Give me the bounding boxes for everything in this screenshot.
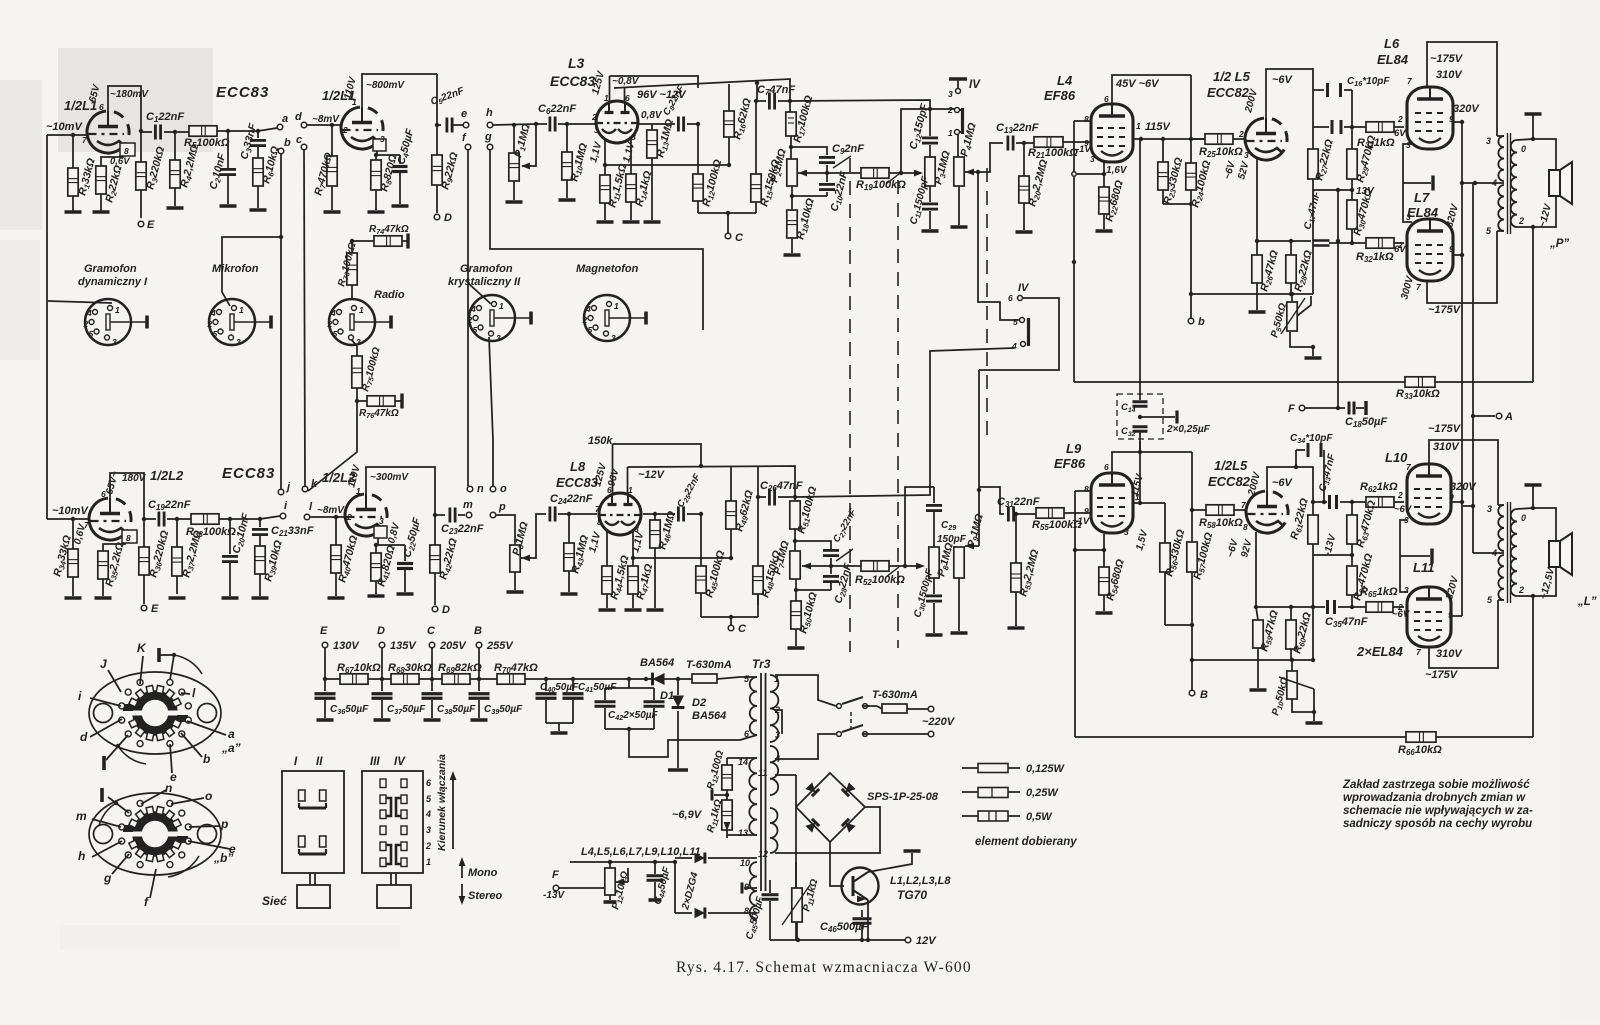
socket view a ground tab bbox=[160, 654, 174, 656]
panel III/IV contacts bbox=[380, 779, 386, 788]
svg-text:4: 4 bbox=[425, 809, 431, 819]
svg-text:wprowadzania drobnych zmian w: wprowadzania drobnych zmian w bbox=[1343, 792, 1526, 804]
resistor R9 22kΩ bbox=[436, 125, 438, 155]
tube L5a ECC82 bbox=[1245, 118, 1276, 160]
wire d to V2 grid bbox=[307, 124, 341, 126]
legend 0,125W bbox=[962, 767, 978, 769]
svg-text:dynamiczny I: dynamiczny I bbox=[78, 276, 148, 288]
feedback wire y=558 bbox=[633, 557, 731, 559]
wire Tr3 pin1 to switch bbox=[775, 675, 836, 706]
pot P3 1MΩ bbox=[925, 157, 935, 186]
svg-text:2: 2 bbox=[947, 105, 953, 115]
svg-text:C16*10pF: C16*10pF bbox=[1347, 76, 1390, 88]
resistor R21 100kΩ bbox=[1033, 141, 1035, 143]
resistor R56 330kΩ bbox=[1164, 503, 1166, 543]
wire V2 cathode bbox=[376, 142, 378, 155]
ground under C2 bbox=[220, 204, 237, 208]
wire P9 bottom bbox=[958, 578, 960, 631]
ground above secondary bbox=[1532, 115, 1534, 139]
wire contact1 to P4 bbox=[957, 134, 959, 157]
fuse T-630mA mains bbox=[877, 706, 882, 709]
wire L8 plates up bbox=[612, 444, 614, 493]
svg-text:0,125W: 0,125W bbox=[1026, 763, 1066, 775]
tube L5b ECC82 bbox=[1246, 491, 1277, 533]
capacitor C34 10pF bbox=[1296, 449, 1305, 451]
svg-text:~6,9V: ~6,9V bbox=[672, 809, 703, 821]
svg-text:C34*10pF: C34*10pF bbox=[1290, 433, 1333, 445]
capacitor C2 10nF bbox=[227, 131, 229, 168]
svg-text:L6: L6 bbox=[1384, 36, 1400, 51]
svg-text:9: 9 bbox=[1084, 506, 1089, 516]
svg-text:b: b bbox=[284, 137, 291, 149]
center tap C14/C32 bbox=[1138, 415, 1142, 419]
svg-text:C92nF: C92nF bbox=[832, 143, 864, 156]
signal line y=566 bbox=[814, 565, 861, 567]
resistor R60 22kΩ bbox=[1290, 607, 1292, 620]
capacitor C9 2nF bbox=[819, 156, 835, 159]
plate wire L4 bbox=[1133, 138, 1205, 140]
wire down to b node bbox=[1190, 204, 1192, 294]
capacitor C14 bbox=[1139, 394, 1141, 400]
terminal 12V bbox=[905, 937, 911, 943]
node after R38 bbox=[228, 517, 232, 521]
svg-text:3: 3 bbox=[1244, 150, 1249, 160]
pot P9 1MΩ bbox=[954, 547, 964, 578]
wire bridge to winding 11 bbox=[775, 774, 796, 776]
Tr3 winding 14-13 bbox=[749, 758, 757, 835]
svg-text:5: 5 bbox=[89, 329, 94, 339]
wire g down and right to Magnetofon bbox=[490, 150, 703, 330]
svg-text:element dobierany: element dobierany bbox=[975, 836, 1077, 848]
svg-text:R321kΩ: R321kΩ bbox=[1356, 251, 1394, 264]
terminal C bbox=[725, 233, 731, 239]
svg-text:2: 2 bbox=[342, 125, 348, 135]
svg-text:8: 8 bbox=[124, 146, 129, 156]
svg-text:C: C bbox=[427, 625, 436, 637]
svg-text:C: C bbox=[735, 232, 744, 244]
svg-text:schemacie nie wpływających w z: schemacie nie wpływających w za- bbox=[1343, 805, 1533, 817]
capacitor C22 50µF bbox=[376, 544, 405, 546]
svg-text:~175V: ~175V bbox=[1430, 53, 1464, 65]
svg-text:E: E bbox=[147, 219, 155, 231]
terminal g bbox=[487, 144, 493, 150]
ground under R44 bbox=[599, 608, 616, 612]
wire secondary to speaker P bbox=[1533, 139, 1556, 170]
svg-text:m: m bbox=[463, 499, 473, 511]
svg-text:D: D bbox=[442, 604, 450, 616]
wire L10 screen bbox=[1451, 501, 1462, 503]
svg-text:C3850µF: C3850µF bbox=[437, 704, 476, 716]
Siec box 2 bbox=[377, 885, 411, 908]
svg-text:3: 3 bbox=[1090, 154, 1095, 164]
capacitor C11 1500pF bbox=[929, 186, 931, 202]
svg-text:n: n bbox=[165, 781, 172, 795]
svg-text:p: p bbox=[220, 817, 228, 831]
transformer Tr2 primary bbox=[1498, 504, 1504, 506]
wire Tr3 pin2 jog bbox=[775, 710, 782, 734]
ground above Tr2 secondary bbox=[1532, 486, 1534, 508]
resistor R49 62kΩ bbox=[730, 467, 732, 501]
signal line y=173 bbox=[810, 172, 861, 174]
svg-text:3: 3 bbox=[594, 125, 599, 135]
resistor R2 22kΩ bbox=[100, 164, 102, 166]
pot P6 1MΩ bbox=[510, 545, 520, 572]
terminal b (supply) bbox=[1188, 318, 1194, 324]
svg-text:L1,L2,L3,L8: L1,L2,L3,L8 bbox=[890, 875, 951, 887]
node C9/C10 bbox=[826, 165, 828, 182]
ground under P9 bbox=[951, 631, 968, 635]
capacitor C32 bbox=[1133, 425, 1148, 428]
wire socket1 to input line bbox=[48, 301, 112, 303]
wire C28 to P7 bottom bbox=[796, 579, 831, 590]
transformer Tr1 core bbox=[1507, 133, 1509, 234]
panel I/II contacts bbox=[299, 790, 306, 801]
svg-text:3: 3 bbox=[112, 337, 117, 347]
socket view b bbox=[89, 793, 221, 875]
capacitor C41 50µF bbox=[572, 679, 574, 691]
bias node -13V bbox=[1313, 554, 1352, 556]
svg-text:BA564: BA564 bbox=[692, 710, 726, 722]
wire b stem bbox=[1190, 294, 1192, 318]
riser to C12 bbox=[901, 109, 930, 173]
svg-text:1: 1 bbox=[628, 485, 633, 495]
ground under R4 bbox=[167, 206, 184, 210]
svg-text:E: E bbox=[320, 625, 328, 637]
resistor R44 1,5kΩ bbox=[606, 565, 608, 567]
tube L11 EL84 bbox=[1407, 587, 1451, 647]
svg-text:1: 1 bbox=[499, 301, 504, 311]
svg-text:R38100kΩ: R38100kΩ bbox=[186, 526, 236, 539]
svg-text:BA564: BA564 bbox=[640, 657, 674, 669]
resistor R47 1kΩ bbox=[632, 565, 634, 567]
svg-text:C1922nF: C1922nF bbox=[148, 499, 191, 512]
terminal k bbox=[302, 486, 308, 492]
svg-text:d: d bbox=[80, 730, 88, 744]
resistor R11h 1kΩ bbox=[726, 795, 728, 800]
svg-text:6: 6 bbox=[99, 102, 104, 112]
svg-text:0,5W: 0,5W bbox=[1026, 811, 1053, 823]
bias rail to F bbox=[1337, 190, 1339, 408]
wire f down to n bbox=[467, 150, 469, 486]
resistor R61 22kΩ bbox=[1308, 515, 1318, 544]
wire R56 to junction bbox=[1165, 624, 1192, 626]
svg-text:b: b bbox=[1198, 316, 1205, 328]
svg-text:ECC83: ECC83 bbox=[550, 73, 595, 89]
terminal d bbox=[301, 122, 307, 128]
node C3/R6 bbox=[256, 129, 260, 133]
svg-text:R6610kΩ: R6610kΩ bbox=[1398, 744, 1442, 757]
svg-text:D: D bbox=[444, 212, 452, 224]
bridge diode 2 bbox=[842, 782, 856, 796]
resistor R25 10kΩ bbox=[1191, 138, 1205, 140]
Tr3 winding 11-12 bbox=[770, 808, 778, 853]
svg-text:o: o bbox=[205, 789, 212, 803]
svg-text:L10: L10 bbox=[1385, 450, 1408, 465]
screen tap to B+ line bbox=[1462, 505, 1473, 507]
rail 125V top bbox=[610, 76, 699, 88]
svg-text:310V: 310V bbox=[1436, 69, 1463, 81]
socket view b leader lines bbox=[141, 790, 166, 804]
switch IV contacts 5-4 bbox=[1020, 318, 1025, 323]
ground under R40 bbox=[328, 596, 345, 600]
speaker P bbox=[1549, 170, 1560, 196]
capacitor C4 50µF bbox=[399, 155, 401, 164]
wire R23/R24 junction bbox=[1163, 203, 1191, 205]
socket Gramofon dynamiczny I bbox=[85, 299, 131, 345]
capacitor C19 22nF bbox=[157, 512, 160, 527]
svg-text:C2422nF: C2422nF bbox=[550, 493, 593, 506]
capacitor C25 22nF bbox=[655, 513, 675, 515]
svg-text:2: 2 bbox=[327, 319, 333, 329]
speaker L bbox=[1549, 541, 1560, 567]
signal line ch2 to L10 bbox=[1313, 501, 1327, 503]
svg-text:0,25W: 0,25W bbox=[1026, 787, 1059, 799]
wire R75 junction down to k bbox=[308, 401, 357, 491]
mains switch pole 2 bbox=[837, 732, 842, 737]
socket view a bbox=[89, 672, 221, 754]
svg-text:C: C bbox=[738, 623, 747, 635]
svg-text:D2: D2 bbox=[692, 697, 706, 709]
svg-text:e: e bbox=[461, 108, 467, 120]
svg-text:1: 1 bbox=[115, 305, 120, 315]
resistor R42 22kΩ bbox=[434, 515, 436, 545]
capacitor C26 47nF bbox=[757, 466, 759, 497]
resistor R22 680Ω bbox=[1103, 186, 1105, 188]
svg-text:a: a bbox=[282, 113, 288, 125]
tube V4 1/2L2 bbox=[345, 494, 376, 536]
svg-text:~175V: ~175V bbox=[1428, 423, 1462, 435]
wire C5 to e bbox=[453, 124, 463, 126]
capacitor C20 10nF bbox=[229, 519, 231, 554]
ground under R34 bbox=[65, 596, 82, 600]
transformer Tr3 core bbox=[760, 673, 762, 891]
wire L6 plate to transformer bbox=[1427, 42, 1497, 136]
terminator bar R74 bbox=[406, 234, 409, 249]
svg-text:„a”: „a” bbox=[221, 741, 241, 755]
svg-text:3: 3 bbox=[1406, 212, 1411, 222]
wire p to P6 bbox=[496, 515, 515, 545]
svg-text:C3122nF: C3122nF bbox=[997, 496, 1040, 509]
svg-text:sadniczy sposób na cechy wyrob: sadniczy sposób na cechy wyrobu bbox=[1343, 818, 1532, 830]
resistor R69 82kΩ bbox=[432, 678, 442, 680]
resistor R40 470kΩ bbox=[335, 517, 337, 545]
capacitor C8 22nF bbox=[652, 123, 675, 125]
wire L8 cathode right bbox=[632, 531, 634, 566]
resistor R68 30kΩ bbox=[382, 678, 391, 680]
resistor R4 2,2MΩ bbox=[174, 132, 176, 160]
resistor R16 62kΩ bbox=[728, 84, 730, 111]
svg-text:320V: 320V bbox=[1453, 103, 1480, 115]
capacitor C36 50µF bbox=[324, 679, 326, 691]
svg-text:R621kΩ: R621kΩ bbox=[1360, 481, 1398, 494]
terminal i bbox=[280, 513, 286, 519]
plate wire L9 bbox=[1133, 502, 1165, 504]
resistor R43 1MΩ bbox=[568, 514, 570, 543]
svg-text:Mikrofon: Mikrofon bbox=[212, 263, 259, 275]
svg-text:0: 0 bbox=[1521, 144, 1526, 154]
terminal E below R3 bbox=[138, 221, 144, 227]
svg-text:R5100kΩ: R5100kΩ bbox=[184, 137, 230, 150]
svg-text:320V: 320V bbox=[1450, 481, 1477, 493]
svg-text:2: 2 bbox=[591, 112, 597, 122]
svg-text:2: 2 bbox=[582, 315, 588, 325]
ground under R37 bbox=[169, 596, 186, 600]
feedback resistor R33 10kΩ bbox=[1074, 381, 1405, 383]
svg-text:L8: L8 bbox=[570, 459, 586, 474]
svg-text:k: k bbox=[311, 478, 318, 490]
shared ground C40/C41 bbox=[546, 722, 573, 724]
terminal e bbox=[463, 122, 469, 128]
svg-text:Zakład zastrzega sobie możliwo: Zakład zastrzega sobie możliwość bbox=[1342, 779, 1530, 791]
pot P1 1MΩ bbox=[513, 125, 515, 153]
socket Magnetofon bbox=[584, 295, 630, 341]
svg-text:ECC82: ECC82 bbox=[1207, 85, 1250, 100]
ground under R6 bbox=[250, 208, 267, 212]
capacitor C29 150pF bbox=[933, 487, 935, 503]
terminal c bbox=[301, 144, 307, 150]
resistor R5 100kΩ bbox=[188, 130, 190, 132]
svg-text:R5810kΩ: R5810kΩ bbox=[1199, 517, 1243, 530]
svg-text:C3950µF: C3950µF bbox=[484, 704, 523, 716]
resistor R13 1MΩ bbox=[637, 123, 652, 125]
capacitor C12 150pF bbox=[929, 109, 931, 136]
capacitor C46 bbox=[853, 917, 872, 920]
wire bridge left down bbox=[795, 807, 797, 940]
label Mono bbox=[461, 862, 463, 878]
svg-text:3: 3 bbox=[236, 337, 241, 347]
terminal n bbox=[467, 486, 473, 492]
svg-text:8: 8 bbox=[597, 517, 602, 527]
svg-text:g: g bbox=[103, 871, 112, 885]
svg-text:K: K bbox=[137, 641, 147, 655]
terminal B stem bbox=[1191, 660, 1193, 690]
node C21 bbox=[258, 517, 262, 521]
wire plate node down to C5 bbox=[437, 74, 441, 125]
resistor R30 470kΩ bbox=[1347, 200, 1357, 229]
capacitor C31 22nF bbox=[1007, 507, 1010, 522]
capacitor C45 500µF bbox=[769, 880, 771, 893]
svg-text:1: 1 bbox=[614, 301, 619, 311]
wire L9 pin8 to feedback bbox=[1075, 490, 1091, 492]
ground under C22 bbox=[397, 592, 414, 596]
bridge diode 1 bbox=[805, 782, 819, 796]
rail to node C ch2 bbox=[700, 605, 702, 617]
svg-text:3: 3 bbox=[426, 825, 431, 835]
Tr3 winding 10-9-8 bbox=[750, 862, 757, 920]
ground under C11 bbox=[922, 229, 939, 233]
pot P11 1kΩ bbox=[795, 862, 797, 888]
ground under R39 bbox=[252, 596, 269, 600]
ganged dashes P3-P8 bbox=[897, 180, 899, 648]
svg-text:11: 11 bbox=[758, 768, 767, 778]
svg-text:T-630mA: T-630mA bbox=[872, 689, 918, 701]
branch to C9 bbox=[791, 147, 827, 155]
svg-text:3: 3 bbox=[1406, 140, 1411, 150]
svg-text:n: n bbox=[477, 483, 484, 495]
svg-text:~10mV: ~10mV bbox=[46, 121, 83, 133]
svg-text:III: III bbox=[370, 756, 380, 768]
svg-text:205V: 205V bbox=[439, 640, 467, 652]
ground under C30 bbox=[926, 633, 943, 637]
rail ~12V bbox=[628, 466, 796, 501]
wire L3 plates up bbox=[609, 76, 611, 101]
wire bridge bottom to base bbox=[830, 842, 844, 886]
resistor R24 100kΩ bbox=[1190, 162, 1192, 164]
terminal f bbox=[465, 144, 471, 150]
wire socket4 pin3 to o bbox=[489, 337, 493, 486]
transformer Tr1 primary bbox=[1497, 135, 1504, 137]
resistor R36 220kΩ bbox=[143, 519, 145, 547]
svg-text:2: 2 bbox=[1397, 490, 1403, 500]
terminal h bbox=[487, 122, 493, 128]
terminal ~220V a bbox=[928, 706, 934, 712]
svg-text:R2510kΩ: R2510kΩ bbox=[1199, 146, 1243, 159]
resistor R63 470kΩ bbox=[1351, 502, 1353, 515]
svg-text:2: 2 bbox=[1518, 585, 1524, 595]
pot P7 1MΩ bbox=[790, 551, 800, 579]
svg-text:9: 9 bbox=[744, 882, 749, 892]
resistor R75 100kΩ bbox=[350, 338, 357, 346]
svg-text:1: 1 bbox=[426, 857, 431, 867]
legend 0,5W bbox=[962, 815, 978, 817]
capacitor C5 22nF bbox=[445, 118, 448, 133]
terminal a bbox=[277, 124, 283, 130]
diode D1 BA564 bbox=[653, 673, 665, 686]
ground under R7 bbox=[324, 210, 341, 214]
wire c to k bbox=[304, 150, 305, 486]
supply line y=660 bbox=[1192, 659, 1313, 661]
ground under P4 bbox=[951, 225, 968, 229]
svg-text:C622nF: C622nF bbox=[538, 103, 576, 116]
resistor R37 2,2MΩ bbox=[176, 519, 178, 547]
wiper P9 bbox=[965, 543, 974, 550]
feedback ch2 from secondary bbox=[1532, 596, 1534, 612]
svg-text:4: 4 bbox=[330, 308, 336, 318]
socket Gramofon krystaliczny II bbox=[469, 295, 515, 341]
svg-text:C2647nF: C2647nF bbox=[760, 480, 803, 493]
svg-text:4: 4 bbox=[585, 304, 591, 314]
resistor R14 1kΩ bbox=[630, 173, 632, 175]
terminal B bbox=[1189, 690, 1195, 696]
terminal j bbox=[278, 489, 284, 495]
wire L9 cathode bbox=[1103, 534, 1105, 567]
Tr3 winding 5-6 bbox=[750, 677, 757, 735]
svg-text:1: 1 bbox=[359, 305, 364, 315]
wire Tr3 pin4 to switch bbox=[775, 734, 836, 759]
wire b to j and Mikrofon bbox=[280, 154, 282, 489]
tube L3 ECC83 bbox=[596, 101, 638, 143]
svg-text:D1: D1 bbox=[660, 690, 674, 702]
svg-text:EF86: EF86 bbox=[1044, 88, 1076, 103]
screen rail 320V bbox=[1453, 121, 1462, 123]
resistor R57 100kΩ bbox=[1191, 452, 1193, 542]
wire L11 plate down bbox=[1429, 600, 1498, 668]
wire L10 plate to transformer bbox=[1429, 440, 1498, 505]
svg-text:12: 12 bbox=[758, 849, 768, 859]
svg-text:C2133nF: C2133nF bbox=[271, 525, 314, 538]
wire wiper to IV switch lower bbox=[978, 172, 1019, 320]
svg-text:3: 3 bbox=[356, 337, 361, 347]
resistor R64 470kΩ bbox=[1347, 566, 1357, 595]
svg-text:IV: IV bbox=[1018, 282, 1030, 294]
wiper arrow P8 bbox=[916, 563, 925, 570]
rail B+ L3 bbox=[614, 79, 790, 112]
resistor R8 820Ω bbox=[375, 155, 377, 160]
ground under R22 bbox=[1096, 229, 1113, 233]
wire L3 cathode right bbox=[630, 139, 632, 174]
svg-text:B: B bbox=[474, 625, 482, 637]
tube L8 ECC83 bbox=[599, 493, 641, 535]
